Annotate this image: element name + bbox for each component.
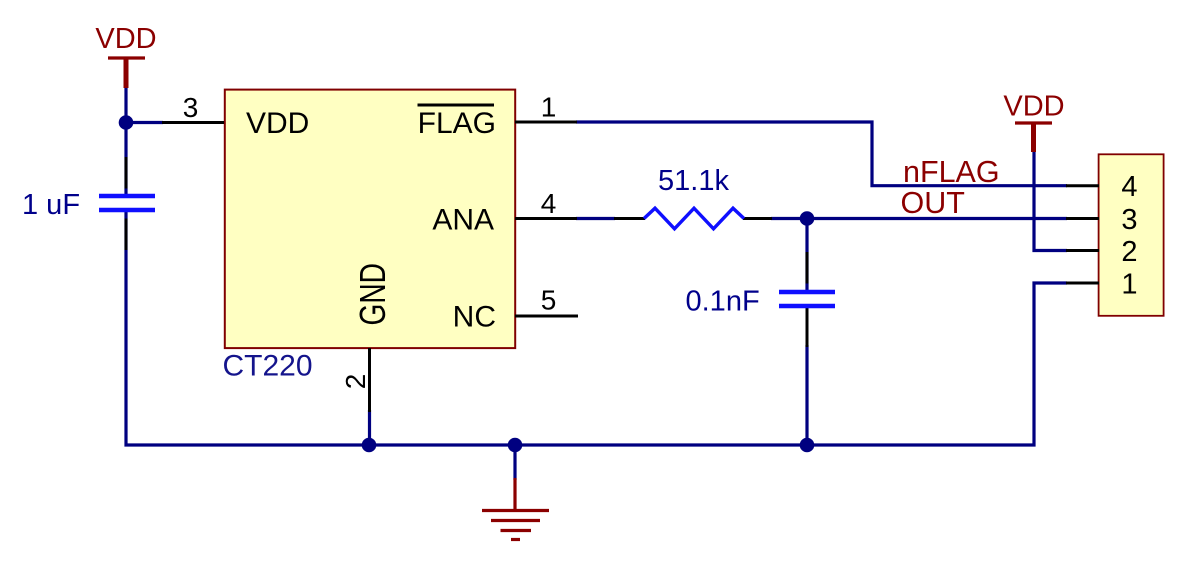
svg-text:5: 5 [541,285,557,316]
svg-text:ANA: ANA [432,204,494,237]
svg-text:CT220: CT220 [223,350,313,383]
svg-text:4: 4 [1121,171,1137,203]
svg-text:FLAG: FLAG [418,107,496,140]
svg-text:OUT: OUT [901,186,965,220]
svg-text:51.1k: 51.1k [658,165,729,197]
svg-text:0.1nF: 0.1nF [686,286,760,318]
svg-text:3: 3 [1121,204,1137,236]
svg-text:4: 4 [541,188,557,219]
svg-text:1: 1 [1121,269,1137,301]
svg-text:GND: GND [352,263,393,326]
svg-text:VDD: VDD [95,23,156,55]
svg-text:1 uF: 1 uF [22,189,80,221]
svg-text:VDD: VDD [246,107,309,140]
svg-text:3: 3 [183,92,199,123]
svg-text:2: 2 [340,374,371,390]
svg-text:VDD: VDD [1003,91,1064,123]
svg-text:nFLAG: nFLAG [903,155,1000,189]
svg-text:2: 2 [1121,236,1137,268]
svg-text:1: 1 [541,92,557,123]
svg-text:NC: NC [453,301,496,334]
